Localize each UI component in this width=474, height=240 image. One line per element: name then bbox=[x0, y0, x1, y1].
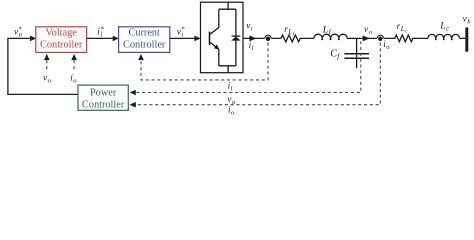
wire: current controller to converter bbox=[170, 37, 195, 39]
svg-text:C: C bbox=[330, 49, 337, 60]
arrow v_o on line bbox=[363, 36, 370, 42]
svg-text:L: L bbox=[322, 25, 328, 36]
diode D: vertical lead bbox=[235, 9, 237, 66]
svg-text:*: * bbox=[19, 27, 23, 34]
dashed stub v_o into voltage controller bbox=[46, 60, 48, 71]
dashed stub i_o into voltage controller bbox=[73, 60, 75, 71]
block: Power Controller bbox=[78, 85, 128, 110]
resistor r_Lf bbox=[280, 35, 301, 42]
wire: reference rail from power controller to voltage controller input bbox=[8, 38, 78, 94]
svg-text:l: l bbox=[252, 45, 254, 52]
diode D: cathode bar bbox=[232, 35, 241, 37]
svg-text:l: l bbox=[231, 85, 233, 92]
transistor Q: base bar bbox=[209, 32, 211, 45]
svg-text:Controller: Controller bbox=[82, 100, 125, 111]
resistor r_Lc bbox=[394, 35, 414, 42]
infinite bus bar v_b bbox=[465, 28, 468, 52]
svg-text:Controller: Controller bbox=[40, 40, 83, 51]
svg-text:*: * bbox=[101, 27, 105, 34]
node i_o tap junction bbox=[377, 35, 384, 42]
svg-text:Controller: Controller bbox=[123, 40, 166, 51]
wire: converter output main line bbox=[243, 37, 465, 39]
dashed feedback i_l : junction to current controller bbox=[141, 43, 268, 80]
wire: voltage to current controller bbox=[87, 37, 113, 39]
block: Voltage Controller bbox=[36, 27, 87, 53]
arrow into current controller bbox=[113, 36, 119, 42]
svg-text:L: L bbox=[439, 21, 445, 32]
diode D: triangle bbox=[231, 37, 240, 41]
inductor L_c bbox=[428, 34, 460, 38]
arrow v_i on line bbox=[249, 36, 256, 42]
dashed feedback v_o : tap to power controller bbox=[135, 41, 361, 92]
inductor L_f bbox=[314, 34, 347, 38]
svg-text:i: i bbox=[251, 26, 253, 33]
svg-text:Current: Current bbox=[128, 28, 160, 39]
block: Current Controller bbox=[119, 27, 170, 53]
converter top tap bbox=[219, 2, 236, 9]
svg-text:Power: Power bbox=[90, 88, 117, 99]
arrow into converter bbox=[194, 36, 200, 42]
node i_l tap junction bbox=[264, 35, 271, 42]
block: converter (IGBT + diode) bbox=[201, 2, 244, 73]
arrow into voltage controller bbox=[30, 36, 36, 42]
svg-text:*: * bbox=[181, 27, 185, 34]
transistor Q: emitter lead with arrow bbox=[210, 42, 219, 66]
dashed feedback i_o : junction to power controller bbox=[135, 43, 380, 105]
converter bottom bar and tap bbox=[219, 66, 236, 73]
capacitor C_f bbox=[356, 38, 358, 53]
transistor Q: collector lead bbox=[210, 9, 219, 34]
svg-text:Voltage: Voltage bbox=[46, 28, 78, 39]
